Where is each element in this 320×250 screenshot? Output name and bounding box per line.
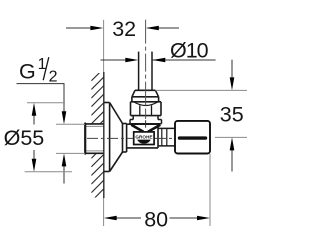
dim G 1/2 leader + arrows	[17, 84, 65, 184]
compression cap dome	[132, 90, 159, 97]
dim 32 left extension line (wall)	[103, 20, 105, 72]
svg-text:Ø10: Ø10	[170, 39, 209, 63]
escutcheon neck ring	[123, 124, 127, 153]
dim Ø10 leader + arrows	[101, 59, 216, 61]
wall face line	[103, 72, 105, 198]
body centre tick	[145, 120, 147, 127]
body V joint	[131, 125, 160, 132]
escutcheon base cylinder	[104, 103, 110, 172]
G 1/2 threaded tail block	[85, 124, 104, 154]
dim 80 extension lines	[103, 198, 105, 226]
outlet pipe (vertical, top)	[139, 52, 152, 91]
svg-text:Ø55: Ø55	[4, 126, 45, 150]
vertical centreline	[145, 20, 147, 119]
cap band	[131, 97, 162, 102]
dim Ø55 extension lines	[25, 103, 72, 172]
G 1/2 extension lines	[56, 124, 85, 153]
svg-text:G: G	[19, 60, 36, 84]
horizontal centreline	[87, 137, 174, 139]
body top flange ring	[130, 120, 162, 124]
wall hatching	[91, 68, 104, 210]
svg-text:GROHE: GROHE	[135, 135, 152, 140]
dim 35 extension lines	[156, 90, 248, 137]
dim Ø55 dimension line + arrows	[33, 114, 35, 161]
nut lower collar	[130, 116, 162, 120]
compression hex nut	[131, 102, 162, 116]
svg-text:32: 32	[112, 17, 136, 41]
dim 32 dimension line + arrows	[66, 27, 179, 29]
valve body	[127, 124, 158, 148]
GROHE logo plate	[134, 132, 154, 145]
svg-text:35: 35	[220, 103, 244, 127]
handle grip bar	[178, 136, 207, 139]
handle knob	[175, 121, 210, 154]
dim 80 dimension line + arrows	[116, 217, 198, 219]
dim 35 dimension line + arrows	[231, 60, 233, 172]
svg-text:2: 2	[49, 68, 58, 85]
svg-text:80: 80	[144, 208, 168, 232]
escutcheon cone	[110, 103, 123, 172]
stem between body and handle	[158, 128, 175, 146]
